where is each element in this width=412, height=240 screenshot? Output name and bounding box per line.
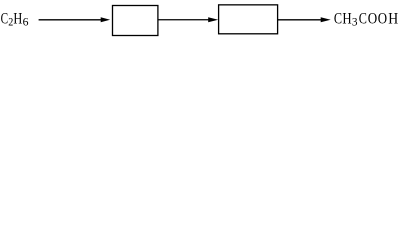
svg-text:6: 6 xyxy=(23,15,29,29)
svg-text:O: O xyxy=(378,11,387,28)
svg-text:H: H xyxy=(13,11,22,28)
svg-text:O: O xyxy=(368,11,377,28)
label C2H6 xyxy=(1,11,29,29)
background xyxy=(0,0,412,41)
svg-text:C: C xyxy=(1,11,8,28)
box 2 xyxy=(219,5,278,34)
svg-text:H: H xyxy=(388,11,398,28)
label CH3COOH xyxy=(334,11,398,29)
arrow 3 shaft xyxy=(278,19,323,21)
svg-text:H: H xyxy=(342,11,351,28)
arrow 2 shaft xyxy=(158,19,211,21)
svg-text:C: C xyxy=(334,11,342,28)
arrow 1 shaft xyxy=(39,19,103,21)
svg-text:3: 3 xyxy=(352,15,358,29)
arrow 1 head xyxy=(101,17,110,22)
arrow 2 head xyxy=(208,17,218,22)
box 1 xyxy=(113,6,158,36)
arrow 3 head xyxy=(321,17,331,22)
svg-text:C: C xyxy=(359,11,367,28)
